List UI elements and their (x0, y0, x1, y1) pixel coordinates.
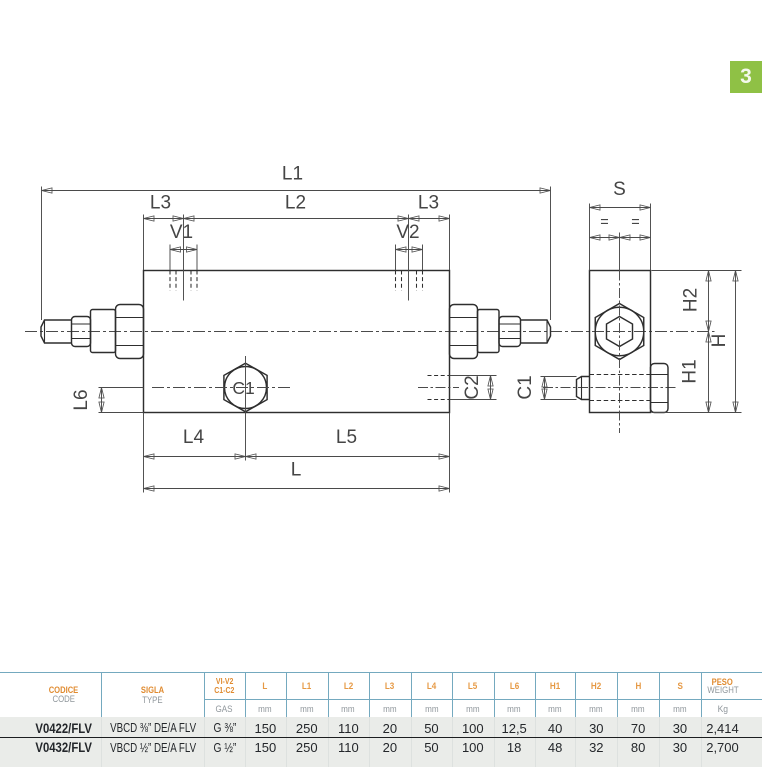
side top extension line (652, 270, 742, 272)
svg-text:=: = (631, 215, 639, 231)
header CODICE/CODE (3, 686, 123, 696)
dimension S (590, 179, 651, 271)
side view bolt outer hex (595, 304, 644, 360)
right threaded stud (521, 320, 551, 343)
V2 port hidden lines (396, 271, 423, 291)
main horizontal centerline (25, 331, 715, 333)
C1 vertical centerline (245, 356, 247, 461)
side view right hex plug (651, 364, 669, 413)
right fitting big hex (450, 305, 478, 359)
valve body front view (144, 271, 450, 413)
dimension L3 left (144, 193, 184, 271)
dimension H (709, 271, 738, 413)
header VI-V2 C1-C2 / GAS (164, 677, 284, 686)
table top border (0, 672, 762, 673)
side view left stud (577, 377, 590, 400)
right fitting washer (478, 310, 500, 353)
side view port centerline (543, 387, 676, 389)
row separator black line (0, 737, 762, 739)
data rows background (0, 717, 762, 767)
C1 label (232, 378, 254, 398)
data row V0422/FLV (0, 722, 128, 736)
V2 centerline (408, 215, 410, 301)
valve body side view (590, 271, 651, 413)
dimension L4 (144, 413, 246, 461)
V1 centerline (183, 215, 185, 301)
V1 port hidden lines (170, 271, 197, 291)
header PESO/WEIGHT/Kg (663, 678, 762, 688)
left fitting big hex (116, 305, 144, 359)
table units separator line (204, 699, 762, 700)
dimension C1 side (515, 375, 577, 399)
svg-text:L3: L3 (150, 193, 171, 214)
C2 port hidden lines (428, 376, 450, 400)
dimension V1 (170, 222, 197, 270)
dimension equal-equal (590, 215, 651, 241)
dimension L3 right (409, 193, 450, 271)
C2 port centerline (418, 387, 459, 389)
header dimension column labels (205, 682, 325, 692)
side view port hidden lines (590, 375, 651, 401)
dimension L (144, 460, 450, 493)
side bottom extension line (652, 412, 742, 414)
dimension V2 (396, 222, 423, 270)
svg-text:L1: L1 (282, 164, 303, 185)
svg-text:V1: V1 (170, 222, 193, 243)
svg-text:L5: L5 (336, 427, 357, 448)
dimension C2 (450, 375, 497, 399)
dimension L2 (184, 193, 409, 222)
right fitting small hex (499, 317, 521, 347)
svg-text:L3: L3 (418, 193, 439, 214)
header SIGLA/TYPE (93, 686, 213, 696)
page number green box (730, 61, 762, 93)
svg-text:=: = (600, 215, 608, 231)
svg-text:L4: L4 (183, 427, 205, 448)
svg-text:V2: V2 (396, 222, 419, 243)
svg-text:C2: C2 (462, 375, 483, 399)
data rows faint column separators (101, 717, 102, 767)
side view bolt inner hex (607, 317, 633, 347)
left threaded stud (41, 320, 72, 343)
svg-text:C1: C1 (515, 375, 536, 399)
data row V0432/FLV (0, 741, 128, 755)
dimension L6 (71, 388, 144, 413)
C1 hex plug front view (224, 363, 267, 412)
dimension L5 (246, 413, 450, 493)
dimension H1 (680, 332, 712, 413)
dimension L1 (42, 164, 551, 321)
dimension H2 (681, 271, 712, 332)
side view bolt circle (595, 307, 644, 356)
svg-text:L6: L6 (71, 389, 92, 410)
svg-text:L: L (291, 460, 302, 481)
left fitting small hex (72, 317, 91, 347)
svg-text:H2: H2 (681, 288, 702, 312)
table header vertical separators (101, 672, 102, 717)
svg-text:H1: H1 (680, 359, 701, 383)
svg-text:L2: L2 (285, 193, 306, 214)
header mm unit labels (205, 705, 325, 715)
left fitting washer (91, 310, 116, 353)
svg-text:H: H (709, 334, 730, 348)
C1 horizontal centerline (152, 387, 290, 389)
svg-text:C1: C1 (232, 378, 254, 398)
side view vertical centerline (619, 233, 621, 434)
svg-text:S: S (613, 179, 626, 200)
